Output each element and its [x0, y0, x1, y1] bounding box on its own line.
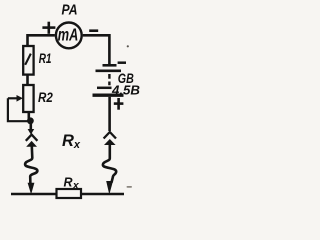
probe contact left: arrow down	[29, 123, 32, 130]
probe arrow right bottom	[106, 181, 113, 195]
svg-text:4,5В: 4,5В	[111, 83, 140, 98]
battery GB cell2 long plate (positive)	[93, 94, 124, 97]
probe contact left: open chevron	[26, 135, 38, 141]
svg-text:R1: R1	[39, 51, 52, 66]
wire battery to right probe contact	[108, 97, 111, 131]
wire top-left corner to R1	[28, 35, 55, 46]
ammeter PA minus mark	[89, 29, 98, 32]
ammeter PA circle	[56, 23, 82, 49]
svg-text:PA: PA	[62, 3, 78, 19]
svg-text:mA: mA	[58, 24, 79, 44]
wire flexible lead left (wavy)	[25, 146, 37, 184]
paper smudge	[127, 186, 133, 188]
paper speck	[127, 45, 129, 47]
wire bottom right segment	[81, 193, 124, 196]
resistor R1 diagonal stroke	[25, 54, 31, 65]
probe arrow left bottom	[28, 183, 35, 195]
node junction dot	[27, 117, 34, 124]
battery GB cell1 short plate (negative)	[103, 64, 117, 67]
ammeter PA plus mark	[42, 22, 55, 34]
battery plus polarity mark	[114, 98, 124, 110]
battery GB cell2 short plate	[97, 87, 112, 90]
wire R2 to node	[27, 112, 30, 119]
wire R1 to R2	[26, 75, 29, 85]
wire flexible lead right (wavy)	[103, 144, 116, 183]
probe contact right: arrow up on lower lead	[104, 139, 116, 145]
probe contact right: open chevron	[104, 132, 116, 139]
resistor R1	[23, 46, 33, 75]
resistor R2 (rheostat)	[23, 85, 33, 112]
resistor R2 wiper arrow	[8, 97, 17, 99]
resistor Rx measured	[57, 189, 82, 198]
wire R2 wiper bracket	[8, 98, 30, 121]
wire bottom left segment	[11, 193, 57, 196]
probe contact left: arrow up on lower lead	[26, 141, 37, 147]
wire meter to top-right corner down to battery	[83, 35, 110, 64]
wire dashed omitted cells	[108, 74, 110, 85]
battery GB cell1 long plate	[96, 69, 122, 72]
battery minus polarity mark	[118, 61, 126, 64]
svg-text:R2: R2	[38, 90, 53, 105]
